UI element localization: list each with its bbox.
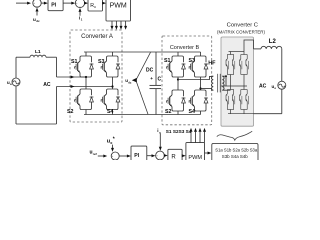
svg-text:L2: L2: [269, 39, 277, 45]
svg-text:PWM: PWM: [188, 155, 202, 160]
svg-text:HF: HF: [208, 61, 216, 67]
svg-text:PWM: PWM: [110, 3, 127, 10]
svg-text:dc: dc: [128, 80, 132, 84]
svg-text:(MATRIX CONVERTER): (MATRIX CONVERTER): [217, 30, 265, 35]
svg-text:S3: S3: [189, 58, 196, 64]
svg-text:+: +: [150, 76, 153, 81]
svg-text:DC: DC: [146, 68, 154, 74]
svg-text:Converter A: Converter A: [81, 34, 113, 40]
svg-text:S1: S1: [71, 59, 78, 65]
svg-text:PI: PI: [134, 153, 139, 159]
svg-text:S3b S4a S4b: S3b S4a S4b: [222, 154, 248, 159]
svg-text:u: u: [94, 5, 96, 9]
svg-text:S1: S1: [164, 58, 171, 64]
svg-text:dc: dc: [36, 19, 40, 23]
svg-text:Converter B: Converter B: [170, 45, 200, 51]
svg-text:S2: S2: [165, 109, 172, 115]
svg-text:AC: AC: [259, 84, 267, 90]
svg-text:AC: AC: [43, 82, 51, 88]
svg-text:PI: PI: [51, 3, 56, 9]
svg-text:Converter C: Converter C: [227, 23, 258, 29]
svg-text:L1: L1: [35, 49, 41, 55]
svg-text:S3: S3: [98, 59, 105, 65]
svg-text:S4: S4: [107, 109, 114, 115]
svg-text:C: C: [158, 76, 162, 82]
svg-text:R: R: [171, 155, 176, 160]
svg-text:S2: S2: [67, 109, 74, 115]
svg-text:ref: ref: [93, 152, 97, 156]
svg-text:S1a S1b S2a S2b S3a: S1a S1b S2a S2b S3a: [215, 148, 258, 153]
svg-text:S4: S4: [189, 109, 196, 115]
svg-text:*: *: [113, 137, 115, 143]
svg-text:o: o: [274, 86, 276, 90]
svg-text:S1 S2S3 S4: S1 S2S3 S4: [166, 129, 192, 134]
